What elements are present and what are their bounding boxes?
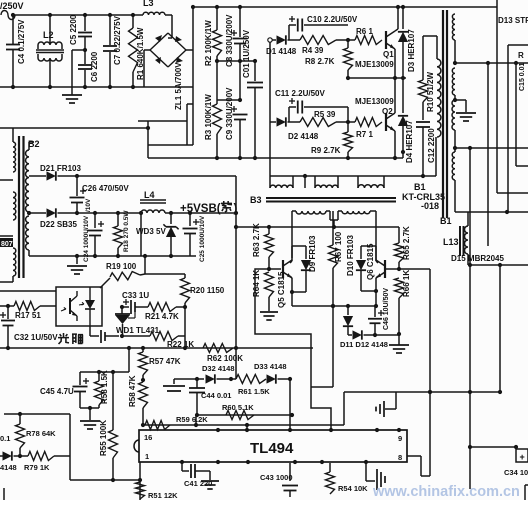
ground R66	[398, 334, 400, 345]
svg-text:807: 807	[1, 241, 13, 248]
diode D12	[348, 334, 352, 336]
optocoupler box	[56, 287, 102, 326]
wire bridge to rails	[186, 49, 193, 51]
svg-text:R61 1.5K: R61 1.5K	[238, 387, 270, 396]
box bottom right	[524, 485, 526, 500]
resistor R58b	[142, 375, 144, 382]
zener WD3	[170, 213, 172, 224]
transformer B2 primary winding	[13, 142, 16, 172]
wire Q5 collector	[290, 261, 292, 263]
capacitor C41	[181, 463, 183, 471]
svg-text:L13: L13	[443, 237, 459, 247]
transformer B3 core	[266, 197, 396, 199]
svg-text:R54 10K: R54 10K	[338, 484, 368, 493]
wire B3 bias rail	[236, 226, 399, 228]
resistor R79	[20, 455, 28, 457]
wire bottom-left rail	[70, 479, 140, 481]
resistor R1	[132, 15, 134, 28]
wire ch1 frame left	[269, 42, 271, 188]
wire C45 R58 bottom	[80, 407, 99, 409]
resistor R54	[329, 463, 331, 472]
svg-text:R58 1.5K: R58 1.5K	[100, 370, 109, 404]
svg-text:R66 1K: R66 1K	[402, 270, 411, 297]
transistor Q2	[385, 113, 387, 131]
svg-text:R5 39: R5 39	[314, 110, 336, 119]
wire +5VSB rail	[165, 212, 236, 214]
wire TL431 to rail	[184, 336, 186, 348]
diode D9	[292, 245, 306, 247]
svg-text:Q2: Q2	[382, 107, 393, 116]
svg-text:R19 100: R19 100	[106, 262, 137, 271]
resistor R17	[0, 305, 8, 307]
svg-text:TL494: TL494	[250, 440, 294, 457]
wire R20 top	[145, 273, 185, 275]
svg-text:C5 2200: C5 2200	[69, 14, 78, 45]
wire secondary tap2	[455, 147, 528, 149]
svg-text:L3: L3	[143, 0, 154, 8]
wire LED cathode out	[89, 326, 91, 336]
svg-text:C4 0.1/275V: C4 0.1/275V	[17, 19, 26, 64]
wire output vertical 516	[515, 63, 517, 166]
resistor R64	[265, 272, 274, 297]
ground secondary	[455, 99, 466, 101]
wire output vertical 488	[487, 63, 489, 246]
capacitor C44	[189, 387, 205, 389]
wire B2 top rail	[0, 127, 148, 129]
wire D33 net down	[289, 379, 291, 431]
svg-text:C01 1U/250V: C01 1U/250V	[242, 29, 251, 78]
svg-text:C8 330U/200V: C8 330U/200V	[225, 14, 234, 67]
svg-text:R18 270 0.5W: R18 270 0.5W	[123, 210, 130, 252]
diode D22	[27, 211, 31, 215]
wire R59 rail	[143, 424, 344, 426]
svg-text:MJE13009: MJE13009	[355, 60, 394, 69]
wire pin8 net	[407, 455, 421, 457]
svg-text:/10V: /10V	[85, 198, 92, 212]
capacitor C46	[374, 306, 376, 317]
wire Q2 emitter	[394, 131, 396, 158]
resistor R20	[184, 274, 186, 278]
wire output vertical 497	[496, 0, 498, 193]
transformer B3 top winding 3	[358, 185, 384, 188]
svg-text:C34 10U: C34 10U	[504, 468, 528, 477]
wire IC left down	[139, 462, 141, 500]
svg-text:D32 4148: D32 4148	[202, 364, 235, 373]
transistor Q5	[282, 260, 284, 278]
wire bottom AC rail	[0, 86, 193, 88]
svg-text:D22 SB35: D22 SB35	[40, 220, 77, 229]
optocoupler phototransistor	[69, 298, 71, 314]
svg-text:C15 0.01: C15 0.01	[519, 62, 526, 91]
svg-text:R20 1150: R20 1150	[190, 286, 225, 295]
svg-text:/250V: /250V	[0, 1, 24, 11]
resistor R62	[203, 344, 233, 353]
svg-text:R79 1K: R79 1K	[24, 463, 50, 472]
capacitor C10 loop	[288, 25, 290, 40]
wire +5VSB feed down	[235, 176, 237, 379]
IC bottom pin dots	[180, 460, 184, 464]
regulator WD1 TL431	[121, 307, 123, 314]
wire HV- rail	[148, 157, 403, 159]
diode D3	[402, 7, 404, 29]
resistor R60	[226, 411, 254, 420]
wire y392 net	[344, 391, 500, 393]
wire driver emitter rail	[292, 305, 376, 307]
svg-text:R60 5.1K: R60 5.1K	[222, 403, 254, 412]
svg-text:-018: -018	[421, 201, 439, 211]
svg-text:R3 100K/1W: R3 100K/1W	[204, 94, 213, 140]
svg-text:R62 100K: R62 100K	[207, 354, 243, 363]
svg-text:C43 1000: C43 1000	[260, 473, 293, 482]
label 807	[0, 238, 13, 247]
svg-text:R58 47K: R58 47K	[128, 375, 137, 407]
wire top AC rail	[15, 14, 143, 16]
resistor R22	[122, 335, 150, 337]
wire Q1 collector	[395, 29, 398, 31]
svg-text:+: +	[520, 452, 525, 462]
resistor R55	[112, 372, 114, 430]
svg-text:C24 1000U/10V: C24 1000U/10V	[83, 215, 90, 262]
capacitor C6	[84, 52, 86, 64]
ground chassis input	[71, 50, 73, 95]
svg-text:C11 2.2U/50V: C11 2.2U/50V	[275, 89, 325, 98]
wire Q6 base	[385, 268, 399, 270]
wire Q6 collector	[376, 261, 378, 263]
transformer B3 bottom winding 2	[342, 211, 370, 214]
capacitor C8	[239, 7, 241, 37]
snubber box	[507, 45, 509, 212]
capacitor C01	[254, 61, 256, 81]
transistor Q1	[385, 31, 387, 49]
wire drive ch1	[272, 39, 276, 41]
svg-text:R51 12K: R51 12K	[148, 491, 178, 500]
ground standby	[76, 256, 78, 264]
svg-text:1: 1	[145, 452, 149, 461]
wire R67 tie	[311, 386, 333, 388]
svg-text:4148: 4148	[0, 463, 17, 472]
svg-text:C12 2200: C12 2200	[427, 128, 436, 163]
wire feedback rail	[0, 347, 313, 349]
svg-text:R17 51: R17 51	[15, 311, 41, 320]
svg-text:R64 1K: R64 1K	[252, 270, 261, 297]
diode D1	[277, 35, 286, 44]
svg-text:D9 FR103: D9 FR103	[308, 235, 317, 272]
resistor R57	[142, 348, 144, 352]
wire secondary tap1	[455, 62, 528, 64]
optocoupler LED	[89, 287, 91, 300]
resistor R61	[236, 375, 266, 384]
capacitor C7	[109, 15, 111, 45]
wire L4 left drop	[140, 213, 142, 256]
wire drive winding top rail	[304, 176, 306, 188]
resistor R8	[347, 40, 349, 48]
svg-text:C26 470/50V: C26 470/50V	[82, 184, 129, 193]
wire soft-start left	[4, 413, 70, 415]
svg-text:D10 FR103: D10 FR103	[346, 235, 355, 276]
capacitor C4	[12, 15, 14, 44]
ground R64	[268, 305, 270, 311]
IC top pin dots	[216, 428, 220, 432]
svg-text:C25 1000U/10V: C25 1000U/10V	[199, 215, 206, 262]
wire B2 secondary bottom	[28, 250, 30, 256]
svg-text:B1: B1	[414, 182, 426, 192]
svg-text:R55 100K: R55 100K	[99, 420, 108, 456]
svg-text:R63 2.7K: R63 2.7K	[252, 223, 261, 257]
ground C45	[89, 408, 91, 420]
svg-text:R57 47K: R57 47K	[149, 357, 181, 366]
resistor R51	[136, 482, 145, 499]
wire D15 rail	[468, 264, 528, 266]
resistor R7	[355, 118, 382, 127]
svg-text:C45 4.7U: C45 4.7U	[40, 387, 74, 396]
diode D2	[270, 121, 276, 123]
wire pin2 net	[196, 379, 198, 388]
diode D soft	[3, 451, 12, 460]
svg-text:R65 2.7K: R65 2.7K	[402, 226, 411, 260]
wire output vertical 500	[499, 265, 501, 392]
wire midpoint rail	[348, 77, 406, 79]
svg-text:Q5 C1815: Q5 C1815	[277, 271, 286, 308]
svg-text:C10 2.2U/50V: C10 2.2U/50V	[307, 15, 358, 24]
wire Q6 emitter	[376, 276, 378, 278]
resistor R4	[288, 39, 301, 41]
svg-text:R9 2.7K: R9 2.7K	[311, 146, 341, 155]
svg-text:C32 1U/50V: C32 1U/50V	[14, 333, 58, 342]
resistor R66	[395, 278, 404, 298]
resistor R5	[288, 121, 301, 123]
corner stub	[3, 488, 5, 500]
wire HV midpoint	[217, 60, 255, 62]
diode D32	[195, 378, 204, 380]
svg-text:R78 64K: R78 64K	[26, 429, 56, 438]
wire standby ground rail	[29, 255, 196, 257]
wire HV+ top rail	[193, 6, 497, 8]
resistor R3	[216, 61, 218, 104]
diode D10	[361, 245, 376, 247]
svg-text:D15 MBR2045: D15 MBR2045	[451, 254, 504, 263]
wire opto input upper	[0, 290, 56, 292]
svg-text:L2: L2	[43, 30, 54, 40]
capacitor C12	[416, 121, 430, 123]
capacitor C32	[0, 314, 6, 316]
svg-text:Q6 C1815: Q6 C1815	[366, 243, 375, 280]
label opto	[58, 333, 69, 344]
ground pin7	[365, 462, 367, 481]
svg-text:R10 51/2W: R10 51/2W	[426, 72, 435, 112]
wire C5-C6 midpoint	[84, 48, 86, 52]
svg-text:MJE13009: MJE13009	[355, 97, 394, 106]
svg-text:R67 100: R67 100	[334, 231, 343, 262]
transistor Q6	[384, 260, 386, 278]
wire secondary bottom	[455, 211, 528, 213]
svg-text:B3: B3	[250, 195, 262, 205]
svg-text:R21 4.7K: R21 4.7K	[145, 312, 179, 321]
capacitor C9	[239, 61, 241, 100]
svg-text:D21 FR103: D21 FR103	[40, 164, 81, 173]
transformer B3 bottom winding 1	[296, 211, 326, 214]
fuse F1	[1, 11, 15, 20]
resistor R2	[216, 7, 218, 30]
svg-text:R4 39: R4 39	[302, 46, 324, 55]
resistor R10	[422, 36, 424, 80]
svg-text:D3 HER107: D3 HER107	[407, 29, 416, 72]
resistor R78	[19, 414, 21, 424]
wire output vertical 470	[469, 148, 471, 489]
svg-text:9: 9	[398, 434, 402, 443]
bridge rectifier ZL1	[168, 33, 186, 50]
node R4-R6-R8	[336, 39, 355, 41]
transformer B3 top winding 2	[315, 185, 338, 188]
node drive input	[268, 38, 272, 42]
svg-text:D33 4148: D33 4148	[254, 362, 287, 371]
svg-text:D2 4148: D2 4148	[288, 132, 319, 141]
svg-text:R8 2.7K: R8 2.7K	[305, 57, 335, 66]
resistor R59	[145, 421, 170, 430]
wire C34 branch	[470, 446, 516, 448]
transformer B1 primary winding	[437, 59, 441, 137]
diode D33	[267, 374, 276, 383]
svg-text:8: 8	[398, 453, 402, 462]
wire bridge lower-left step	[147, 121, 149, 158]
wire base loop stair to IC	[255, 269, 331, 431]
svg-text:C7 0.22/275V: C7 0.22/275V	[113, 15, 122, 65]
svg-text:D4 HER107: D4 HER107	[405, 120, 414, 163]
wire Q2 collector	[394, 78, 396, 113]
capacitor comp	[100, 330, 102, 343]
svg-text:C46 10U/50V: C46 10U/50V	[383, 288, 390, 330]
transformer B3 top winding 1	[270, 185, 293, 188]
svg-text:R7 1: R7 1	[356, 130, 373, 139]
IC U1 TL494 body	[139, 430, 407, 462]
component +12V box	[516, 449, 528, 462]
capacitor C25	[189, 213, 191, 226]
node R5-R7-R9	[336, 121, 355, 123]
wire C45 branch	[128, 348, 130, 372]
svg-text:R: R	[518, 51, 524, 60]
svg-text:0.1: 0.1	[0, 434, 10, 443]
svg-text:Q1: Q1	[383, 50, 394, 59]
wire snubber return	[270, 175, 436, 177]
svg-text:WD3 5V: WD3 5V	[136, 227, 166, 236]
diode D21	[47, 171, 56, 180]
svg-text:R6 1: R6 1	[356, 27, 373, 36]
capacitor bulk small	[173, 379, 175, 384]
wire Q1 emitter to midpoint	[394, 49, 396, 78]
svg-text:R2 100K/1W: R2 100K/1W	[204, 20, 213, 66]
capacitor C5	[84, 15, 86, 31]
wire soft rail y415	[197, 414, 292, 416]
transformer B2 secondary winding	[26, 150, 29, 212]
resistor R65	[398, 227, 400, 243]
svg-text:D11 D12 4148: D11 D12 4148	[340, 340, 388, 349]
resistor R18	[117, 213, 119, 226]
diode D4	[398, 116, 408, 126]
svg-text:C6 2200: C6 2200	[90, 51, 99, 82]
diode D11	[347, 306, 349, 315]
svg-text:C44 0.01: C44 0.01	[201, 391, 231, 400]
svg-text:L4: L4	[144, 190, 155, 200]
resistor R21	[148, 303, 176, 312]
resistor R6	[355, 36, 382, 45]
svg-text:16: 16	[144, 433, 152, 442]
wire R65 junction to right	[399, 268, 430, 270]
ground C41	[201, 480, 219, 482]
svg-text:B1: B1	[440, 216, 452, 226]
svg-text:www.chinafix.com.cn: www.chinafix.com.cn	[372, 484, 520, 500]
svg-text:R59 6.2K: R59 6.2K	[176, 415, 208, 424]
ground sideways DTC	[395, 392, 397, 409]
wire D21 branch	[29, 175, 46, 177]
wire pin14 drop	[195, 415, 197, 425]
resistor R58	[98, 372, 100, 381]
wire Q5 emitter	[290, 276, 292, 278]
wire Q5 base	[269, 268, 281, 270]
svg-text:ZL1 5A/700V: ZL1 5A/700V	[174, 62, 183, 110]
capacitor C24	[94, 213, 96, 228]
resistor R67	[332, 211, 334, 245]
resistor R9	[347, 122, 349, 132]
capacitor C26	[75, 174, 79, 178]
resistor R63	[268, 227, 270, 234]
svg-text:C33 1U: C33 1U	[122, 291, 149, 300]
svg-text:C9 330U/200V: C9 330U/200V	[225, 87, 234, 140]
transformer B1 secondary winding	[452, 14, 455, 40]
transformer B1 core	[442, 10, 444, 218]
capacitor C43	[289, 463, 291, 481]
svg-text:D13 STP: D13 STP	[498, 16, 528, 25]
transformer B2 core	[18, 136, 20, 278]
